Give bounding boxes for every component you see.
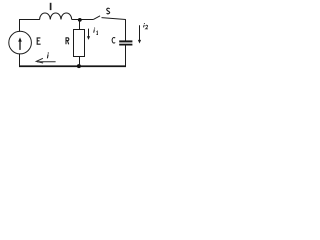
wire: top rail from coil to switch left contact: [72, 19, 94, 21]
label i2: [144, 23, 149, 29]
wire: right vertical down to capacitor: [125, 19, 127, 40]
switch S blade (open): [93, 16, 100, 20]
source E internal arrow (pointing up): [18, 37, 22, 50]
node: bottom junction (resistor / rail): [77, 64, 81, 68]
wire: top rail left segment: [19, 19, 40, 21]
current arrow i1 (downwards, right of resistor): [87, 29, 90, 40]
label l (inductance value): [50, 3, 52, 10]
wire: below source down to bottom rail: [19, 54, 21, 67]
resistor R (box): [74, 30, 85, 57]
label i (bottom rail current): [47, 52, 49, 58]
label R: [66, 38, 69, 45]
current arrow i2 (downwards, right of capacitor): [138, 25, 141, 43]
label E: [37, 38, 41, 44]
node: top junction (coil / resistor / switch): [78, 18, 82, 22]
wire: top rail right segment to top-right corner: [102, 18, 126, 20]
source E (circle): [9, 31, 32, 54]
label i1: [94, 28, 98, 35]
capacitor C bottom plate: [119, 44, 132, 46]
resistor R bottom lead: [79, 57, 81, 67]
label S: [107, 8, 110, 14]
wire: top-left vertical from source up to top rail: [19, 20, 21, 32]
current arrow i on bottom rail (pointing left, open head): [36, 58, 55, 63]
label C: [112, 38, 115, 44]
wire: below capacitor down to bottom rail: [125, 45, 127, 66]
wire: bottom rail: [19, 65, 126, 67]
resistor R top lead: [79, 20, 81, 30]
capacitor C top plate: [119, 40, 132, 42]
inductor l (coil of 3 arcs): [40, 13, 72, 20]
